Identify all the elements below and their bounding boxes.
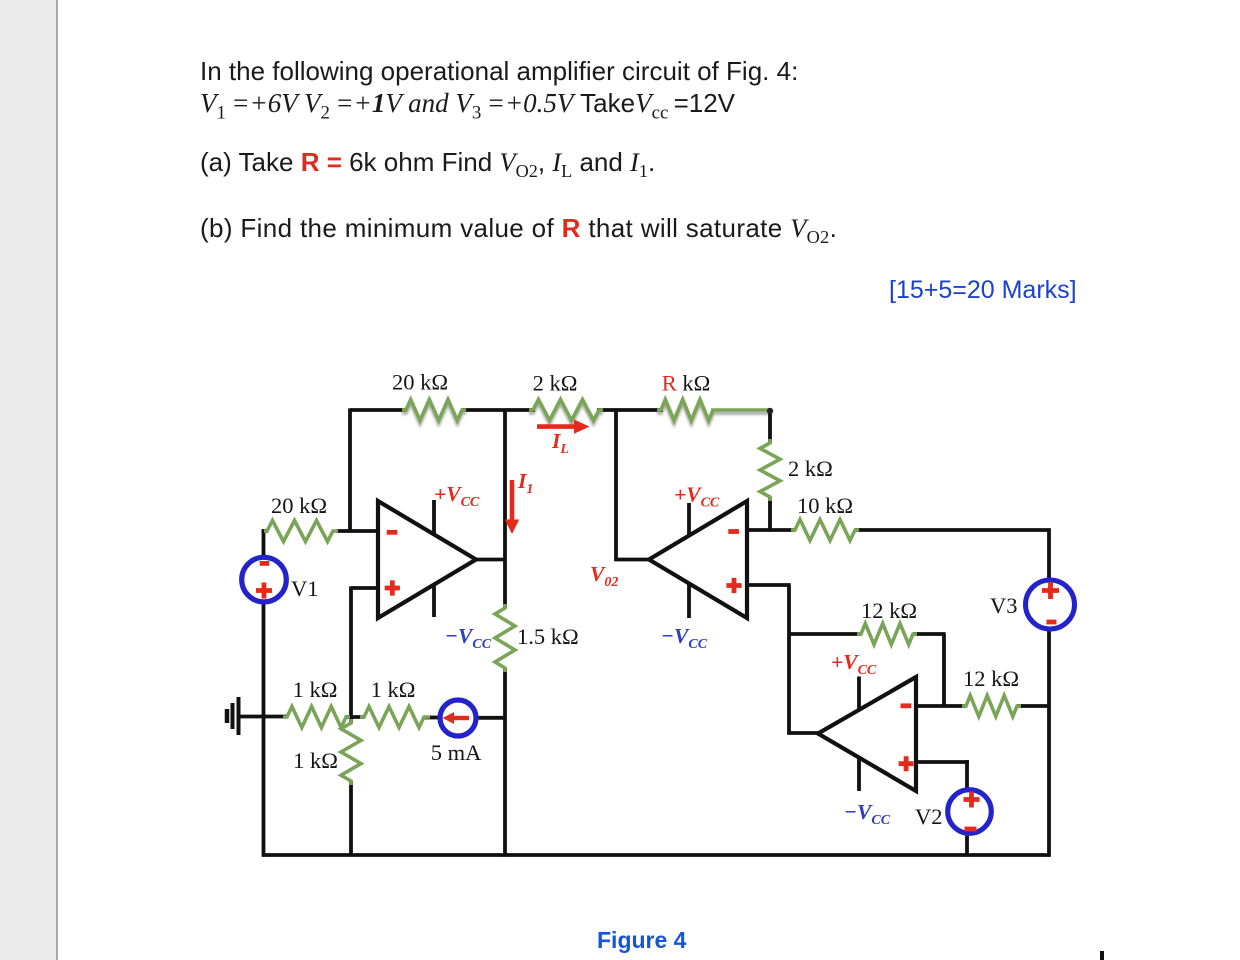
V2 plus mark <box>964 792 980 808</box>
svg-text:20 kΩ: 20 kΩ <box>271 493 327 518</box>
svg-text:−VCC: −VCC <box>661 624 708 652</box>
wire 10k to V3 branch <box>855 528 1051 532</box>
source V2 <box>948 790 992 834</box>
svg-text:5 mA: 5 mA <box>431 740 482 765</box>
svg-text:+VCC: +VCC <box>434 482 480 510</box>
wire V1 top lead vertical <box>262 531 266 557</box>
svg-text:V02: V02 <box>590 562 618 590</box>
wire top rail seg B <box>462 408 535 412</box>
page left gray margin strip <box>0 0 58 960</box>
op3 +Vcc stub <box>857 677 861 711</box>
op3 plus sign <box>899 756 914 771</box>
wire R corner vertical upper <box>768 410 772 443</box>
op-amp U1 <box>378 501 476 618</box>
resistor 2k vertical <box>760 439 780 501</box>
wire op2 + to op3 output vertical <box>787 585 791 735</box>
problem statement line 1 <box>200 56 798 87</box>
wire op3 inverting input <box>914 704 966 708</box>
resistor 1k a <box>283 707 350 728</box>
op3 -Vcc stub <box>857 755 861 791</box>
wire op1 inverting input <box>336 529 378 533</box>
wire left feedback vertical <box>348 408 352 531</box>
wire op1 output <box>474 558 507 562</box>
svg-text:12 kΩ: 12 kΩ <box>963 666 1019 691</box>
figure caption <box>597 927 686 954</box>
svg-text:+VCC: +VCC <box>831 650 877 678</box>
wire op3 feedback vertical drop <box>942 634 946 706</box>
source V1 <box>242 557 287 602</box>
V3 plus mark <box>1042 582 1059 599</box>
marks <box>889 276 1077 305</box>
wire V1 bottom lead vertical <box>262 603 266 857</box>
problem statement line 2 (math) <box>200 88 735 124</box>
svg-text:2 kΩ: 2 kΩ <box>533 371 578 396</box>
svg-text:1 kΩ: 1 kΩ <box>293 677 338 702</box>
op2 +Vcc stub <box>687 503 691 536</box>
V2 minus mark <box>965 827 977 832</box>
wire top rail seg A <box>350 408 406 412</box>
op2 minus sign <box>728 529 739 534</box>
op1 minus sign <box>387 530 398 535</box>
resistor R k <box>657 400 713 421</box>
resistor 1.5k vertical <box>495 604 515 672</box>
svg-text:20 kΩ: 20 kΩ <box>392 370 448 395</box>
svg-text:IL: IL <box>551 429 569 457</box>
svg-text:2 kΩ: 2 kΩ <box>788 456 833 481</box>
wire op3 noninverting input <box>914 760 969 764</box>
wire V3 bottom lead <box>1047 628 1051 857</box>
wire output node vertical lower <box>503 668 507 857</box>
source 5mA <box>440 700 476 736</box>
op1 +Vcc stub <box>432 500 436 536</box>
op2 plus sign <box>726 578 741 593</box>
resistor 1k vertical <box>341 719 361 785</box>
wire top rail seg C <box>597 408 663 412</box>
wire op1 noninverting input <box>351 586 378 590</box>
svg-text:R kΩ: R kΩ <box>662 371 711 396</box>
wire op2 noninverting input <box>746 583 791 587</box>
ground <box>227 697 239 735</box>
wire V2 bottom lead <box>965 835 969 857</box>
part (b) <box>200 213 837 248</box>
V1 plus mark <box>256 583 272 599</box>
wire op3 feedback left <box>789 632 861 636</box>
wire op1 + input vertical <box>349 586 353 723</box>
resistor 12k to V3 <box>962 696 1021 717</box>
svg-text:1 kΩ: 1 kΩ <box>371 677 416 702</box>
wire 1k to 5mA source <box>424 716 438 720</box>
wire V3 top lead <box>1047 528 1051 580</box>
stray text cursor mark bottom right <box>1100 951 1104 960</box>
svg-text:−VCC: −VCC <box>844 800 891 828</box>
svg-text:I1: I1 <box>517 469 533 497</box>
wire ground to first 1k <box>239 715 288 719</box>
svg-text:10 kΩ: 10 kΩ <box>797 493 853 518</box>
wire between 1k resistors <box>346 715 364 719</box>
wire op3 feedback right <box>913 632 946 636</box>
resistor 10k <box>791 520 859 541</box>
op1 plus sign <box>385 580 400 595</box>
V3 minus mark <box>1047 620 1057 625</box>
op-amp U2 <box>649 501 747 618</box>
resistor 1k b <box>360 707 430 728</box>
current arrow I1 <box>505 480 519 534</box>
svg-text:12 kΩ: 12 kΩ <box>861 598 917 623</box>
wire V1 top lead horizontal <box>262 529 269 533</box>
wire V2 top lead <box>965 760 969 790</box>
svg-text:V1: V1 <box>291 576 319 601</box>
wire op3 output horizontal <box>787 731 819 735</box>
V1 minus mark <box>260 561 270 566</box>
wire 5mA to output node <box>476 716 507 720</box>
resistor 12k feedback op3 <box>857 624 917 645</box>
resistor 2k top <box>529 400 603 421</box>
wire R corner vertical lower <box>768 497 772 532</box>
wire Vo2 vertical <box>614 408 618 561</box>
wire green R to corner <box>711 408 770 412</box>
wire below 1k vertical resistor <box>349 781 353 855</box>
op1 -Vcc stub <box>432 583 436 617</box>
svg-text:−VCC: −VCC <box>445 624 492 652</box>
source V3 <box>1026 580 1075 629</box>
svg-text:1 kΩ: 1 kΩ <box>293 748 338 773</box>
wire 12k to V3 branch vertical <box>1017 704 1049 708</box>
part (a) <box>200 147 655 182</box>
wire Vo2 to op2 output <box>614 558 650 562</box>
wire bottom rail <box>262 853 1051 857</box>
op2 -Vcc stub <box>687 583 691 618</box>
resistor 20k top <box>402 400 466 421</box>
5mA arrow <box>443 712 470 724</box>
current arrow IL <box>537 420 590 434</box>
svg-text:V3: V3 <box>990 593 1018 618</box>
wire output node vertical upper <box>503 410 507 608</box>
junction dot R corner <box>767 408 773 414</box>
wire op2 inverting input <box>746 528 795 532</box>
op3 minus sign <box>901 703 912 708</box>
svg-text:+VCC: +VCC <box>674 483 720 511</box>
svg-text:1.5 kΩ: 1.5 kΩ <box>517 624 579 649</box>
resistor 20k input <box>264 521 338 542</box>
op-amp U3 <box>818 677 916 791</box>
svg-text:V2: V2 <box>915 804 943 829</box>
